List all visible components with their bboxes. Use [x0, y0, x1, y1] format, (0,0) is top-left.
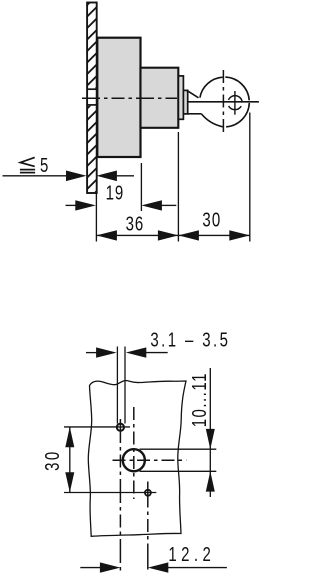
dimension <=5 : right arrow [96, 171, 117, 182]
main hole bottom tangent line / 10-11 extension [140, 470, 217, 472]
dimension 10...11 : lower arrow (points up) [206, 471, 215, 491]
bottom anti-rotation hole [145, 490, 151, 496]
dimension 19 : left arrow [75, 200, 96, 210]
main hole horizontal centerline [113, 459, 187, 461]
label <=5 : less-or-equal symbol [20, 157, 35, 172]
key horizontal line through keyhole [188, 101, 259, 103]
top anti-rotation hole [117, 424, 124, 431]
dimension 36 : left arrow [96, 230, 117, 240]
svg-text:3.1 – 3.5: 3.1 – 3.5 [150, 328, 230, 351]
dimension 30 : line [178, 234, 249, 236]
svg-text:19: 19 [106, 181, 125, 204]
bottom hole vertical centerline [147, 482, 149, 572]
collar (front bezel) [141, 68, 179, 128]
dimension 19 : right line [162, 204, 177, 206]
dimension 12.2 : left arrow [100, 562, 121, 572]
dimension 19 : right arrow [141, 200, 162, 210]
label 12.2 [168, 543, 215, 566]
dimension 3.1-3.5 : right arrow [126, 347, 147, 357]
svg-text:10...11: 10...11 [188, 372, 211, 427]
key bow vertical centerline [222, 70, 224, 134]
key bow circle (upper-left arc) [200, 77, 223, 98]
main mounting hole [123, 449, 145, 471]
svg-text:12.2: 12.2 [168, 543, 215, 566]
dimension 12.2 : left line [80, 567, 100, 569]
lock hub [183, 90, 187, 114]
extension line at body rear [140, 163, 142, 211]
main hole vertical centerline [133, 407, 135, 499]
extension line at panel rear face [95, 193, 97, 242]
key bit vertical line [234, 91, 236, 115]
dimension 12.2 : right arrow [148, 562, 169, 572]
dimension 3.1-3.5 : left arrow [96, 347, 117, 357]
switch body (main housing) [97, 38, 140, 157]
label 30 (rotated) [41, 449, 64, 471]
bottom hole horizontal line / 30-extension [64, 492, 156, 494]
dimension 36 : right arrow [158, 230, 179, 240]
slot vertical centerline [119, 419, 121, 571]
dimension 36 : line [96, 234, 178, 236]
dimension 30 (vertical) : line [69, 427, 71, 493]
label 30 [202, 208, 221, 231]
key bow circle (lower-right arc) [226, 103, 249, 127]
dimension 30 : top arrow [65, 427, 74, 447]
key bow circle (upper-right arc) [225, 77, 249, 100]
dimension 3.1-3.5 : right line [146, 352, 168, 354]
svg-text:36: 36 [126, 212, 145, 235]
extension line at collar front [177, 132, 179, 242]
dimension <=5 : left line [3, 175, 67, 177]
key bow lower flank line [188, 113, 202, 115]
svg-text:5: 5 [40, 154, 48, 177]
dimension 10...11 : line [209, 368, 211, 497]
dimension 30 : bottom arrow [65, 472, 74, 492]
top hole horizontal line / 30-extension [64, 426, 130, 428]
panel cut-out sketch (wavy outline) [88, 381, 186, 537]
key bow lower flank arc [201, 114, 222, 127]
key bow upper flank [187, 90, 199, 98]
dimension 30 : right arrow [229, 230, 250, 240]
panel hole lower edge [86, 104, 97, 106]
label 10...11 (rotated) [188, 372, 211, 427]
lock ring [178, 76, 183, 119]
slot left line [116, 347, 118, 424]
label 3.1-3.5 [150, 328, 230, 351]
svg-text:30: 30 [202, 208, 221, 231]
main hole top tangent line / 10-11 extension [140, 448, 217, 450]
keyhole circle bottom arc [229, 106, 242, 110]
dimension 10...11 : upper arrow (points down) [206, 429, 215, 449]
svg-text:30: 30 [41, 449, 64, 471]
keyhole circle top arc [228, 96, 242, 101]
label 19 [106, 181, 125, 204]
extension line at key front [249, 113, 251, 242]
mounting panel (hatched) [86, 0, 97, 201]
dimension <=5 : left arrow [66, 171, 87, 182]
dimension 19 : left line [66, 204, 76, 206]
dimension 12.2 : right line [168, 567, 227, 569]
slot right line [124, 347, 126, 424]
panel hole upper edge [86, 88, 97, 90]
label <=5 : digit 5 [40, 154, 48, 177]
label 36 [126, 212, 145, 235]
horizontal centerline [82, 97, 177, 99]
dimension 3.1-3.5 : left line [86, 352, 97, 354]
dimension <=5 : right line [117, 175, 135, 177]
dimension 30 : left arrow [178, 230, 199, 240]
